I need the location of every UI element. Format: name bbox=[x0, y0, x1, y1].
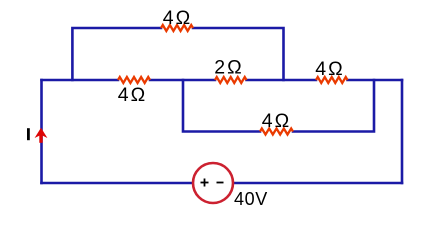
current arrow I (red, pointing up on left wire) bbox=[35, 128, 48, 143]
wire: middle horizontal between 2Ω and right 4Ω bbox=[247, 79, 317, 82]
resistor 4Ω (middle left) bbox=[118, 77, 150, 83]
svg-text:40V: 40V bbox=[234, 189, 268, 209]
wire: right vertical bbox=[401, 80, 404, 183]
wire: lower branch left vertical and stub bbox=[183, 80, 260, 132]
voltage source V 40V (circle) bbox=[193, 163, 233, 203]
wire: lower branch right stub and vertical bbox=[293, 80, 374, 132]
wire: top branch horizontal (right stub) bbox=[193, 28, 284, 80]
voltage source minus terminal bbox=[217, 182, 224, 184]
wire: left vertical (node A to bottom) bbox=[40, 80, 43, 183]
wire: top branch horizontal (left stub) bbox=[72, 28, 161, 80]
wire: bottom left segment to source bbox=[42, 182, 194, 185]
voltage source plus terminal bbox=[201, 179, 209, 187]
svg-text:4Ω: 4Ω bbox=[118, 84, 147, 106]
svg-text:4Ω: 4Ω bbox=[262, 110, 291, 132]
svg-text:2Ω: 2Ω bbox=[214, 57, 243, 79]
svg-text:4Ω: 4Ω bbox=[163, 7, 192, 29]
resistor 4Ω (middle right) bbox=[316, 77, 348, 83]
wire: middle horizontal right segment bbox=[348, 79, 403, 82]
resistor 2Ω (middle) bbox=[215, 77, 247, 83]
wire: bottom right segment from source bbox=[233, 182, 402, 185]
wire: middle horizontal between 4Ω and 2Ω bbox=[150, 79, 215, 82]
svg-text:4Ω: 4Ω bbox=[315, 58, 344, 80]
resistor 4Ω (top branch) bbox=[161, 25, 193, 31]
resistor 4Ω (lower branch) bbox=[260, 129, 293, 135]
wire: middle horizontal left segment bbox=[42, 79, 119, 82]
label I (current) bbox=[27, 128, 30, 140]
